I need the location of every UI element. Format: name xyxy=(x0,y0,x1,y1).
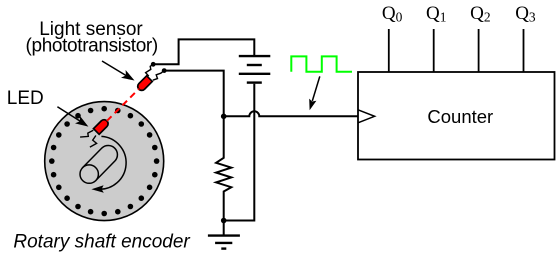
svg-text:LED: LED xyxy=(7,88,44,109)
svg-text:(phototransistor): (phototransistor) xyxy=(26,35,158,56)
svg-text:Counter: Counter xyxy=(427,106,493,127)
svg-text:Rotary shaft encoder: Rotary shaft encoder xyxy=(13,232,190,253)
